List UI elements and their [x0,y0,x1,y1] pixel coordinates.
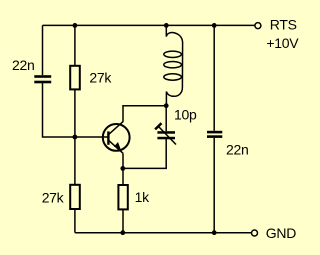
svg-text:RTS: RTS [270,17,297,33]
wire top rail [43,24,255,26]
trimmer C3 adjust arrow [155,123,176,144]
wire R3 bottom to ground rail [122,210,124,233]
svg-text:27k: 27k [42,189,65,205]
wire left column lower (C1 bottom to base wire) [43,83,108,137]
wire R1 bottom to base node [74,90,76,138]
wire R1 column top [74,25,76,66]
node dot bottom rail / C2 [212,230,217,235]
transistor Q1 [103,121,130,153]
capacitor C1 22n (left) plates [34,75,51,83]
wire left column upper (to C1 top) [42,25,44,75]
svg-text:22n: 22n [226,142,248,158]
wire base node to R2 top [74,137,76,185]
terminal RTS [255,23,261,29]
wire bottom rail [75,232,251,234]
node dot top rail / C2 [212,23,217,28]
node A dot L1/C3/collector [164,103,169,108]
svg-text:+10V: +10V [266,35,299,51]
inductor L1 [164,25,183,105]
svg-text:GND: GND [266,225,296,241]
wire right column upper (rail to C2 top) [213,25,215,130]
node B dot emitter / R3 / C3 [120,166,125,171]
capacitor C2 22n (right) plates [207,131,222,138]
wire node B to trimmer bottom [123,139,166,168]
terminal GND [252,230,258,236]
svg-text:1k: 1k [135,189,150,205]
svg-text:10p: 10p [174,107,197,123]
wire trimmer top to node A [165,106,167,132]
wire right column lower (C2 bottom to ground rail) [213,138,215,233]
trimmer capacitor C3 10p plates [157,131,175,139]
resistor R1 27k (top) [70,66,80,90]
resistor R3 1k [118,185,127,209]
node dot top rail / R1 [73,23,78,28]
svg-text:22n: 22n [12,57,34,73]
wire emitter down to node B [122,154,124,169]
wire R2 bottom to ground rail [74,209,76,233]
resistor R2 27k (bottom left) [70,185,80,209]
svg-text:27k: 27k [89,69,112,85]
wire collector to node A [123,106,166,122]
node dot base wire / R1 R2 [73,135,78,140]
node dot bottom rail / R3 [120,230,125,235]
node dot top rail / L1 [164,23,169,28]
wire node B to R3 top [122,168,124,185]
